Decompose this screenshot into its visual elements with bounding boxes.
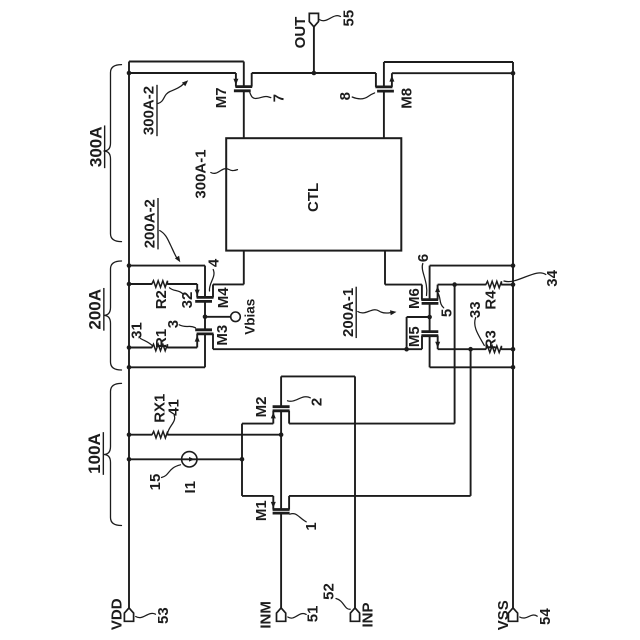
transistor M7	[235, 73, 237, 87]
wire M1 drain horizontal	[289, 495, 471, 497]
wire VDD to M7 bulk (top)	[129, 61, 244, 63]
leader line 32	[170, 288, 183, 294]
label 54	[537, 608, 554, 625]
leader line 300A-2 arrow	[158, 84, 184, 104]
leader line 15	[162, 465, 181, 478]
label M8	[399, 88, 416, 109]
terminal VDD pin 53	[124, 608, 133, 621]
label 7	[270, 94, 287, 102]
svg-text:INP: INP	[360, 602, 377, 627]
leader line 34	[504, 273, 546, 282]
label R1	[153, 329, 170, 348]
wire M5 source to R3	[438, 348, 486, 350]
node junction bulk M1 M2	[279, 432, 284, 437]
label 300A-1	[193, 149, 210, 198]
svg-text:M5: M5	[406, 326, 423, 347]
wire tail to M2 source	[242, 423, 273, 425]
label 8	[337, 92, 354, 100]
node junction M5 M6 gates	[427, 315, 432, 320]
label M6	[406, 288, 423, 309]
wire M2 drain horizontal	[289, 423, 455, 425]
svg-text:32: 32	[179, 292, 196, 309]
wire CTL to M6 drain riser	[384, 251, 386, 285]
svg-text:2: 2	[308, 398, 325, 406]
label 1	[303, 522, 320, 530]
label INM	[258, 601, 275, 629]
svg-text:5: 5	[438, 309, 455, 317]
leader line 52	[336, 599, 350, 610]
brace 200A	[104, 261, 122, 370]
brace 100A	[104, 383, 122, 525]
svg-text:CTL: CTL	[305, 183, 322, 212]
wire M2 drain riser	[454, 285, 456, 424]
wire INM riser	[280, 513, 282, 608]
svg-text:M6: M6	[406, 288, 423, 309]
wire M6 bulk to VSS	[430, 265, 513, 267]
label 53	[155, 607, 172, 624]
node junction OUT	[312, 71, 317, 76]
svg-text:4: 4	[206, 258, 223, 267]
transistor M2	[272, 411, 274, 424]
node junction VDD rail y265	[127, 263, 132, 268]
svg-text:VDD: VDD	[108, 598, 125, 630]
node junction VDD rail y73	[127, 71, 132, 76]
label M7	[213, 87, 230, 108]
label RX1	[152, 394, 169, 423]
wire M5 gate lead	[429, 317, 431, 332]
label 31	[128, 322, 145, 339]
transistor M5	[421, 330, 438, 333]
node junction VSS rail y349	[511, 347, 516, 352]
svg-text:200A-2: 200A-2	[142, 199, 159, 248]
label 100A	[85, 433, 104, 474]
wire gate node to tap	[407, 316, 430, 318]
transistor M1	[272, 496, 274, 510]
node junction M5 source M1 drain	[468, 347, 473, 352]
leader line 3	[179, 325, 195, 328]
svg-text:M2: M2	[253, 397, 270, 418]
wire M8 bulk to VSS	[384, 61, 513, 63]
svg-text:200A: 200A	[86, 289, 105, 330]
svg-text:200A-1: 200A-1	[340, 288, 357, 337]
wire M8 source to VSS	[392, 72, 513, 74]
node junction VSS rail y367	[511, 365, 516, 370]
wire M1 drain riser	[470, 349, 472, 496]
svg-text:55: 55	[340, 10, 357, 27]
label 41	[166, 399, 183, 416]
wire tail to M1 source	[242, 495, 273, 497]
leader line 51	[288, 614, 306, 619]
wire M4 bulk lead	[204, 266, 206, 298]
label I1	[182, 481, 199, 494]
wire VDD rail	[128, 62, 130, 608]
wire VDD to R1	[129, 347, 152, 349]
node junction I1 to tail	[240, 457, 245, 462]
label 33	[467, 301, 484, 318]
leader line 200A-2 arrow	[160, 231, 177, 259]
leader line 41	[168, 416, 174, 432]
brace 300A	[104, 65, 122, 242]
wire OUT riser	[313, 27, 315, 73]
svg-text:300A: 300A	[86, 126, 105, 167]
label R4	[482, 290, 499, 310]
wire M4 gate lead	[204, 301, 206, 316]
leader line 8	[352, 93, 374, 99]
leader line 31	[141, 339, 153, 346]
node junction M6 source M2 drain	[452, 282, 457, 287]
wire M5 bulk to VSS	[430, 366, 513, 368]
leader line 5	[437, 292, 444, 308]
svg-text:15: 15	[147, 474, 164, 491]
leader line 200A-1 arrow	[358, 310, 391, 313]
wire tail vertical	[241, 424, 243, 496]
label 6	[415, 254, 432, 262]
node junction gate tap	[404, 347, 409, 352]
label VSS	[495, 600, 512, 630]
wire M3 gate lead	[204, 317, 206, 330]
svg-text:34: 34	[544, 269, 561, 286]
svg-text:INM: INM	[258, 601, 275, 629]
label 300A-2	[141, 86, 158, 135]
label CTL	[305, 183, 322, 212]
current source I1	[182, 452, 197, 467]
wire VDD to M4 bulk	[129, 265, 205, 267]
svg-text:M3: M3	[214, 325, 231, 346]
wire R3 to VSS	[501, 348, 513, 350]
wire R4 to VSS	[501, 284, 513, 286]
label Vbias	[243, 299, 258, 335]
transistor M6	[429, 266, 431, 300]
wire R2 to M4 source	[167, 283, 197, 285]
node junction VSS rail y73	[511, 71, 516, 76]
label R2	[153, 290, 170, 309]
leader line 300A-1	[211, 169, 238, 174]
svg-text:Vbias: Vbias	[243, 299, 258, 335]
leader line 6	[422, 264, 427, 296]
svg-text:54: 54	[537, 608, 554, 625]
label M5	[406, 326, 423, 347]
leader line 55	[319, 16, 340, 21]
label 2	[308, 398, 325, 406]
node junction VSS rail y265	[511, 263, 516, 268]
svg-text:52: 52	[321, 583, 338, 600]
svg-text:3: 3	[165, 320, 182, 328]
leader line 53	[136, 613, 156, 617]
label INP	[360, 602, 377, 627]
svg-text:51: 51	[305, 606, 322, 623]
node junction VDD rail y367	[127, 365, 132, 370]
wire M2 gate horizontal	[281, 375, 355, 377]
label 4	[206, 258, 223, 267]
svg-text:8: 8	[337, 92, 354, 100]
wire R1 to M3 source	[167, 347, 197, 349]
terminal Vbias	[231, 312, 241, 322]
label M2	[253, 397, 270, 418]
svg-text:7: 7	[270, 94, 287, 102]
wire INP riser	[354, 376, 356, 608]
svg-text:M1: M1	[253, 500, 270, 521]
label 200A-2	[142, 199, 159, 248]
label 15	[147, 474, 164, 491]
wire RX1 to bulk node	[168, 434, 282, 436]
wire M6 gate lead	[429, 303, 431, 317]
svg-text:53: 53	[155, 607, 172, 624]
resistor R2	[152, 281, 168, 288]
svg-text:R4: R4	[482, 290, 499, 310]
block CTL 300A-1	[226, 138, 401, 250]
svg-text:1: 1	[303, 522, 320, 530]
label M3	[214, 325, 231, 346]
wire VDD to M7 source	[129, 72, 236, 74]
svg-text:R2: R2	[153, 290, 170, 309]
svg-text:OUT: OUT	[292, 17, 309, 49]
terminal INP pin 52	[350, 608, 359, 621]
wire Vbias stub	[205, 316, 231, 318]
svg-text:41: 41	[166, 399, 183, 416]
node junction Vbias	[203, 315, 208, 320]
wire M7 gate to CTL	[243, 91, 245, 138]
label 55	[340, 10, 357, 27]
label 200A-1	[340, 288, 357, 337]
svg-text:M7: M7	[213, 87, 230, 108]
svg-text:R1: R1	[153, 329, 170, 348]
wire VDD to R2	[129, 283, 152, 285]
node junction VDD rail y347	[127, 345, 132, 350]
wire M3 bulk to VDD	[129, 366, 205, 368]
transistor M4	[196, 284, 198, 297]
wire VDD to I1	[129, 458, 242, 460]
wire M6 source to R4	[438, 284, 486, 286]
label M1	[253, 500, 270, 521]
resistor R4	[486, 281, 502, 288]
wire gate tap riser	[406, 317, 408, 349]
node junction VDD rail y284	[127, 282, 132, 287]
svg-text:I1: I1	[182, 481, 199, 494]
leader line 4	[209, 270, 214, 292]
label 5	[438, 309, 455, 317]
node junction VDD rail y459	[127, 457, 132, 462]
transistor M8	[375, 73, 377, 87]
resistor R3	[486, 346, 502, 353]
terminal VSS pin 54	[508, 608, 517, 621]
label 3	[165, 320, 182, 328]
svg-text:M4: M4	[215, 287, 232, 308]
resistor RX1	[152, 431, 168, 438]
label R3	[482, 330, 499, 349]
resistor R1	[152, 344, 168, 351]
svg-text:R3: R3	[482, 330, 499, 349]
label 52	[321, 583, 338, 600]
node junction VSS rail y284	[511, 282, 516, 287]
svg-text:M8: M8	[399, 88, 416, 109]
svg-text:6: 6	[415, 254, 432, 262]
terminal OUT pin 55	[309, 13, 318, 26]
label 32	[179, 292, 196, 309]
leader line 2	[288, 397, 311, 402]
wire M3 drain to M5 drain	[213, 348, 422, 350]
svg-text:300A-2: 300A-2	[141, 86, 158, 135]
label 200A	[86, 289, 105, 330]
wire M2 gate riser	[280, 376, 282, 406]
label 300A	[86, 126, 105, 167]
label VDD	[108, 598, 125, 630]
wire M4 drain to CTL	[213, 283, 244, 285]
label M4	[215, 287, 232, 308]
label OUT	[292, 17, 309, 49]
svg-text:31: 31	[128, 322, 145, 339]
wire VSS rail	[512, 62, 514, 608]
svg-text:VSS: VSS	[495, 600, 512, 630]
leader line 33	[475, 318, 485, 346]
label 51	[305, 606, 322, 623]
wire VDD to RX1	[129, 434, 152, 436]
svg-text:300A-1: 300A-1	[193, 149, 210, 198]
svg-text:33: 33	[467, 301, 484, 318]
node junction VDD rail y434	[127, 432, 132, 437]
wire M7 drain to OUT to M8 drain	[252, 72, 376, 74]
wire CTL to M4 drain riser	[243, 251, 245, 285]
label 34	[544, 269, 561, 286]
transistor M3	[195, 328, 212, 331]
svg-text:100A: 100A	[85, 433, 104, 474]
terminal INM pin 51	[277, 608, 286, 621]
leader line 1	[290, 514, 306, 522]
leader line 7	[250, 93, 271, 99]
wire M8 gate to CTL	[383, 91, 385, 138]
leader line 54	[520, 615, 538, 618]
